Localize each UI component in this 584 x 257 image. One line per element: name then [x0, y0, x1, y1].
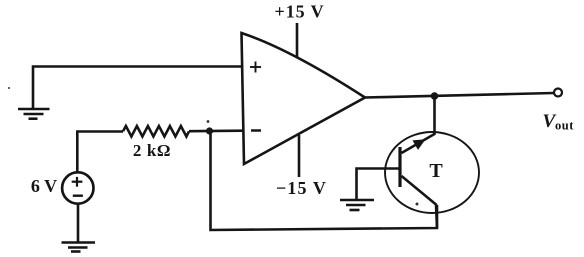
svg-text:out: out: [555, 119, 574, 133]
transistor arrow: [413, 139, 426, 150]
wire -15V supply: [298, 135, 301, 177]
svg-text:+15 V: +15 V: [275, 2, 325, 22]
resistor R 2k: [123, 126, 189, 137]
source minus symbol: [73, 194, 83, 196]
wire from source to resistor: [77, 132, 123, 173]
op-amp minus input symbol: [251, 129, 261, 132]
svg-text:−15 V: −15 V: [276, 178, 327, 198]
op-amp plus input symbol: [250, 62, 261, 73]
voltage source V1 6V: [62, 172, 93, 203]
wire collector: [402, 96, 435, 153]
svg-text:2 kΩ: 2 kΩ: [133, 141, 171, 160]
op-amp U1: [242, 33, 366, 164]
transistor emitter: [402, 176, 438, 228]
ground G1: [18, 109, 50, 119]
ground G2: [62, 243, 96, 252]
wire resistor to inverting input: [189, 129, 243, 132]
ground G3: [340, 200, 374, 210]
svg-text:T: T: [429, 160, 443, 182]
node junction inverting input: [206, 127, 213, 134]
wire base: [357, 169, 401, 200]
transistor base bar: [398, 147, 401, 187]
transistor T circle: [385, 132, 479, 213]
output terminal: [554, 89, 562, 97]
svg-text:6 V: 6 V: [31, 176, 57, 196]
wire output: [365, 93, 554, 98]
wire feedback loop: [211, 134, 438, 230]
noise specks: [8, 87, 419, 206]
wire non-inverting input: [33, 67, 243, 109]
node junction output: [431, 92, 439, 100]
wire +15V supply: [296, 23, 299, 57]
source plus symbol: [72, 177, 83, 187]
wire source to ground: [77, 204, 80, 243]
